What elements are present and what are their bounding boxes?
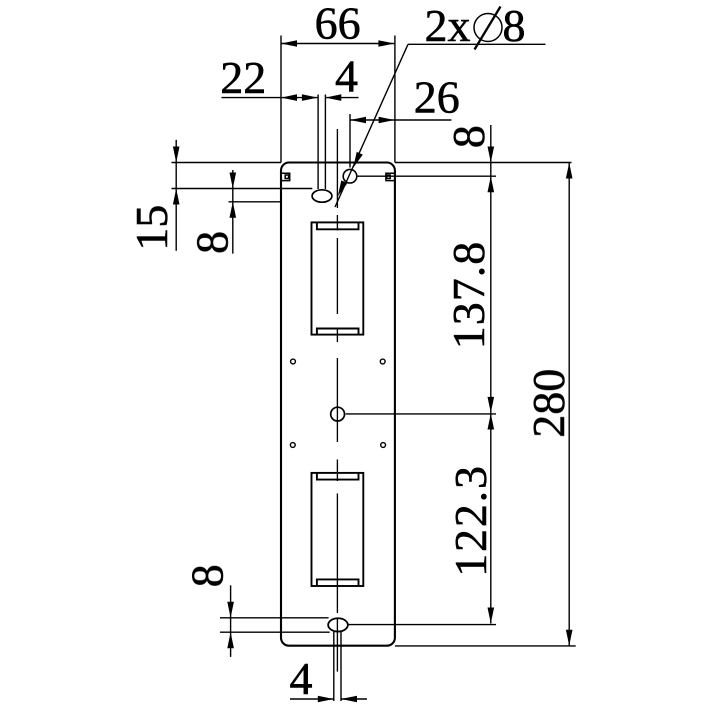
leader arrow 2 — [338, 180, 348, 196]
extension line ellipse bottom — [229, 201, 281, 203]
dimension 280 arrows — [566, 163, 573, 179]
extension line hole1 center — [357, 175, 496, 177]
upper slot top staple — [317, 222, 359, 229]
dimension 4 bottom tails — [290, 698, 334, 700]
dimension 8 right arrows — [488, 147, 495, 163]
svg-text:8: 8 — [503, 0, 526, 51]
dimension 66 arrows — [281, 40, 297, 47]
dimension 122.3 arrows — [488, 414, 495, 430]
svg-text:4: 4 — [335, 51, 358, 102]
dimension 137.8 arrows — [488, 397, 495, 413]
dimension 8 right line + 137.8 + 122.3 shared line — [490, 125, 492, 624]
small dot bottom-right — [381, 443, 386, 448]
dimension 26 tail — [395, 119, 452, 121]
dimension 8 bottom arrows — [227, 602, 234, 618]
svg-text:280: 280 — [523, 369, 574, 438]
extension line plate left top — [280, 36, 282, 163]
dimension 26 line — [350, 119, 395, 121]
dimension 15 line — [175, 140, 177, 251]
small dot top-right — [380, 359, 385, 364]
upper slot bottom staple — [317, 329, 359, 335]
extension line left of top edge — [172, 162, 282, 164]
left edge tab — [281, 173, 290, 180]
bottom ellipse hole — [328, 618, 348, 631]
label diameter symbol — [474, 14, 502, 42]
lower slot rectangle — [312, 473, 364, 586]
leader arrow 1 — [353, 152, 363, 168]
dimension 22 line — [222, 97, 318, 99]
leader horizontal — [408, 43, 546, 45]
svg-text:66: 66 — [315, 0, 361, 49]
dimension 8 left line — [232, 170, 234, 254]
svg-text:15: 15 — [126, 205, 177, 251]
extension line hole1 vertical — [349, 114, 351, 168]
dimension 66 line — [281, 43, 394, 45]
upper slot rectangle — [312, 222, 364, 334]
dimension 26 arrows — [350, 117, 366, 124]
extension line bottom edge right — [395, 645, 576, 647]
center hole — [331, 407, 345, 421]
extension line center hole — [346, 413, 496, 415]
top slot line right — [324, 95, 326, 190]
svg-text:8: 8 — [182, 564, 233, 587]
svg-text:2x: 2x — [425, 0, 471, 51]
svg-text:8: 8 — [443, 125, 494, 148]
dimension 22 arrows — [281, 94, 297, 101]
vertical centerline — [336, 129, 338, 672]
svg-text:22: 22 — [220, 52, 266, 103]
bottom slot line left — [333, 632, 335, 701]
dimension 15 arrows — [173, 147, 180, 163]
top slot line left — [317, 95, 319, 190]
svg-text:122.3: 122.3 — [445, 464, 496, 577]
dimension 280 line — [568, 163, 570, 646]
dimension 4 bottom arrows — [318, 696, 334, 703]
extension line plate right top — [394, 36, 396, 163]
small dot bottom-left — [290, 443, 295, 448]
extension line bottom ellipse bottom — [220, 631, 330, 633]
dimension 4 top arrow — [325, 94, 341, 101]
svg-text:8: 8 — [186, 231, 237, 254]
extension line ellipse top — [172, 188, 313, 190]
bottom slot line right — [340, 632, 342, 701]
hole top ellipse — [312, 190, 332, 202]
plate outline — [281, 163, 395, 646]
extension line bottom ellipse top — [220, 617, 329, 619]
extension line bottom ellipse center — [348, 624, 496, 626]
dimension 8 bottom line — [230, 585, 232, 657]
right edge tab — [386, 173, 395, 180]
dimension 8 left arrows — [230, 173, 237, 189]
extension line right of top edge — [395, 162, 572, 164]
small dot top-left — [291, 359, 296, 364]
hole top circle — [343, 169, 357, 183]
lower slot bottom staple — [317, 579, 359, 586]
dimension 4 top tail — [325, 97, 358, 99]
lower slot top staple — [317, 473, 359, 480]
svg-text:26: 26 — [414, 72, 460, 123]
leader diagonal — [335, 44, 408, 207]
svg-text:137.8: 137.8 — [443, 241, 494, 350]
svg-text:4: 4 — [290, 653, 313, 704]
